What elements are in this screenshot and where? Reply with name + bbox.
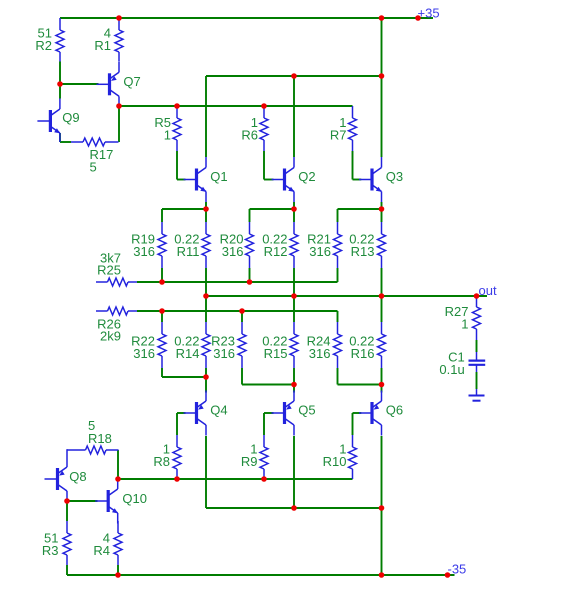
svg-text:316: 316	[133, 244, 155, 259]
wire Q1 base horizontal	[177, 179, 186, 181]
wire R12 top lead	[293, 209, 295, 222]
svg-text:+35: +35	[418, 5, 440, 20]
wire Q4 base horizontal	[177, 412, 186, 414]
wire R16 bottom lead	[381, 368, 383, 385]
wire out row	[206, 295, 487, 297]
wire Q8 collector node to Q10 base	[67, 500, 98, 502]
resistor R13 (0.22)	[349, 222, 385, 268]
resistor R17 (5)	[71, 138, 119, 175]
wire Q2 emitter to junction	[293, 202, 295, 209]
wire second rail y76	[206, 75, 382, 77]
junction bias row / R6	[261, 103, 267, 109]
wire R19 top corner down	[161, 209, 163, 222]
svg-text:R14: R14	[176, 346, 200, 361]
wire Q2 emitter node to R20 top	[250, 208, 295, 210]
junction top rail / +35 riser	[379, 15, 385, 21]
junction -35 net stub	[445, 572, 451, 578]
svg-text:Q8: Q8	[69, 469, 86, 484]
transistor Q3 (NPN)	[359, 157, 403, 202]
resistor R24 (316)	[307, 322, 342, 368]
resistor R22 (316)	[131, 322, 166, 368]
svg-text:Q3: Q3	[386, 169, 403, 184]
resistor R26 (2k9)	[96, 307, 137, 344]
wire R13 top lead	[381, 209, 383, 222]
svg-text:R2: R2	[35, 38, 52, 53]
svg-text:R7: R7	[330, 127, 347, 142]
wire R19 bottom to R25 row	[161, 268, 163, 282]
wire Q3 emitter node to R21 top	[338, 208, 382, 210]
svg-text:R18: R18	[88, 431, 112, 446]
wire R15 bottom lead	[293, 368, 295, 385]
wire R20 top corner down	[249, 209, 251, 222]
svg-text:R10: R10	[323, 454, 347, 469]
wire +35 top rail	[60, 17, 433, 19]
transistor Q9 (NPN)	[37, 99, 79, 143]
resistor R10 (1)	[323, 435, 357, 479]
junction Q2 emitter node	[291, 206, 297, 212]
resistor R12 (0.22)	[262, 222, 298, 268]
wire Q1 emitter to junction	[205, 202, 207, 209]
junction collector row / Q5	[291, 505, 297, 511]
resistor R8 (1)	[153, 435, 181, 479]
wire R11 bottom to out row	[205, 268, 207, 296]
wire R13 bottom to out row	[381, 268, 383, 296]
svg-text:R8: R8	[153, 454, 170, 469]
svg-text:316: 316	[309, 346, 331, 361]
svg-text:Q10: Q10	[122, 491, 147, 506]
wire R21 top corner down	[337, 209, 339, 222]
svg-text:1: 1	[461, 317, 468, 332]
wire R16 top lead	[381, 296, 383, 322]
wire Q3 base horizontal	[353, 179, 362, 181]
wire Q9 emitter down to R17 row	[59, 133, 61, 142]
svg-text:R16: R16	[351, 346, 375, 361]
transistor Q6 (PNP)	[359, 391, 403, 436]
junction R25 row / R20	[247, 279, 253, 285]
wire Q1 collector riser	[205, 76, 207, 157]
wire R15 top lead	[293, 296, 295, 322]
junction Q4 emitter node	[203, 374, 209, 380]
wire C1 bottom to ground	[476, 372, 478, 389]
svg-text:R4: R4	[93, 543, 110, 558]
transistor Q10 (NPN)	[95, 479, 147, 524]
resistor R9 (1)	[241, 435, 268, 479]
wire R23 bottom lead	[241, 368, 243, 385]
svg-text:316: 316	[213, 346, 235, 361]
junction node C R18/Q10 collector/bias row	[115, 476, 121, 482]
wire R11 top lead	[205, 209, 207, 222]
wire Q6 base corner down to R10	[352, 413, 354, 435]
wire Q6 base horizontal	[353, 412, 362, 414]
junction rail y76 / +35 riser	[379, 73, 385, 79]
resistor R21 (316)	[307, 222, 341, 268]
wire R27 bottom to C1	[476, 340, 478, 352]
junction rail y76 / Q2 collector	[291, 73, 297, 79]
resistor R1 (4)	[94, 18, 123, 62]
junction Q6 emitter node	[379, 382, 385, 388]
wire R21 bottom to R25 row	[337, 268, 339, 282]
svg-text:Q2: Q2	[298, 169, 315, 184]
svg-text:316: 316	[133, 346, 155, 361]
resistor R20 (316)	[220, 222, 254, 268]
resistor R14 (0.22)	[174, 322, 210, 368]
capacitor C1 (0.1u)	[439, 350, 485, 377]
wire R12 bottom to out row	[293, 268, 295, 296]
svg-text:R6: R6	[241, 127, 258, 142]
wire Q5 emitter lead	[293, 385, 295, 393]
transistor Q4 (PNP)	[184, 391, 228, 436]
wire Q2 collector riser	[293, 76, 295, 157]
wire R18 right down to node C	[117, 450, 119, 478]
junction out row / R11 R14	[203, 293, 209, 299]
junction out row / R12 R15	[291, 293, 297, 299]
junction -35 rail / Q6 riser	[379, 572, 385, 578]
ground	[469, 389, 485, 401]
wire R22 top lead	[161, 311, 163, 322]
svg-text:Q4: Q4	[210, 403, 227, 418]
resistor R19 (316)	[131, 222, 166, 268]
wire Q4 base corner down to R8	[176, 413, 178, 435]
wire Q5 collector down	[293, 436, 295, 508]
wire R26 row	[137, 310, 338, 312]
resistor R27 (1)	[445, 296, 481, 340]
junction Q1 emitter node	[203, 206, 209, 212]
transistor Q8 (PNP)	[45, 457, 87, 502]
wire R20 bottom to R25 row	[249, 268, 251, 282]
transistor Q1 (NPN)	[184, 157, 228, 202]
junction Q3 emitter node	[379, 206, 385, 212]
wire R7 bottom to Q3 base corner	[352, 151, 354, 180]
svg-text:-35: -35	[448, 562, 467, 577]
wire Q6 emitter lead	[381, 385, 383, 393]
wire R14 top lead	[205, 296, 207, 322]
junction node B Q7 collector / R17 / bias row	[116, 103, 122, 109]
junction collector row / Q6 riser	[379, 505, 385, 511]
junction +35 net stub	[415, 15, 421, 21]
svg-text:2k9: 2k9	[100, 329, 121, 344]
svg-text:R11: R11	[177, 244, 200, 259]
svg-text:R9: R9	[241, 454, 258, 469]
wire R3 bottom lead	[66, 565, 68, 575]
svg-text:Q7: Q7	[123, 74, 140, 89]
junction R26 row / R23	[239, 308, 245, 314]
wire R17 right up to node B	[118, 107, 120, 143]
wire R23 bottom to Q5 emitter node	[242, 384, 294, 386]
junction top rail / R1	[116, 15, 122, 21]
resistor R6 (1)	[241, 106, 268, 151]
svg-text:316: 316	[222, 244, 244, 259]
junction lower bias row / R8	[174, 476, 180, 482]
wire lower bias row y479	[118, 478, 353, 480]
resistor R7 (1)	[330, 106, 357, 151]
wire Q1 emitter node to R19 top	[162, 208, 206, 210]
svg-text:R1: R1	[94, 38, 111, 53]
svg-text:1: 1	[164, 127, 171, 142]
junction bias row / R5	[174, 103, 180, 109]
junction R25 row / R19	[159, 279, 165, 285]
wire Q5 base corner down to R9	[263, 413, 265, 435]
wire R3 top lead	[66, 501, 68, 521]
wire R4 bottom lead	[117, 565, 119, 575]
svg-text:Q9: Q9	[62, 110, 79, 125]
wire R22 bottom lead	[161, 368, 163, 377]
wire R25 row	[137, 281, 338, 283]
wire -35 bottom rail	[67, 574, 455, 576]
junction Q5 emitter node	[291, 382, 297, 388]
junction -35 rail / R4	[115, 572, 121, 578]
wire Q6 collector down to -35 rail	[381, 436, 383, 575]
svg-text:R12: R12	[264, 244, 288, 259]
svg-text:out: out	[479, 283, 497, 298]
svg-text:316: 316	[309, 244, 331, 259]
wire R23 top lead	[241, 311, 243, 322]
wire R14 bottom lead	[205, 368, 207, 377]
wire R5 bottom to Q1 base corner	[176, 151, 178, 180]
transistor Q5 (PNP)	[272, 391, 316, 436]
wire R24 bottom to Q6 emitter node	[338, 384, 382, 386]
wire R6 bottom to Q2 base corner	[263, 151, 265, 180]
svg-text:Q5: Q5	[298, 403, 315, 418]
resistor R3 (51)	[42, 521, 71, 565]
svg-text:Q6: Q6	[386, 403, 403, 418]
svg-text:R25: R25	[97, 263, 121, 278]
wire Q2 base horizontal	[264, 179, 274, 181]
svg-text:R13: R13	[351, 244, 375, 259]
resistor R5 (1)	[154, 106, 181, 151]
wire node A to Q7 base	[60, 83, 99, 85]
wire Q9 emitter to R17 left	[60, 141, 71, 143]
resistor R25 (3k7)	[96, 250, 137, 286]
wire node B bias row to R5/R6/R7 tops	[119, 105, 353, 107]
node A junction R2/Q9/Q7	[57, 81, 63, 87]
wire R22 bottom to Q4 emitter node	[162, 376, 206, 378]
wire Q9 collector to node A	[59, 84, 61, 99]
wire Q5 base horizontal	[264, 412, 274, 414]
wire lower collector row y508	[206, 507, 382, 509]
wire Q4 emitter lead	[205, 377, 207, 393]
wire Q4 collector down	[205, 436, 207, 508]
junction out row / R27 (out node)	[474, 293, 480, 299]
svg-text:R15: R15	[264, 346, 288, 361]
wire R24 bottom lead	[337, 368, 339, 385]
wire Q8 emitter to R18 corner	[66, 449, 68, 456]
resistor R15 (0.22)	[262, 322, 298, 368]
transistor Q7 (PNP)	[97, 62, 141, 107]
resistor R16 (0.22)	[349, 322, 385, 368]
svg-text:5: 5	[90, 160, 97, 175]
transistor Q2 (NPN)	[272, 157, 316, 202]
svg-text:Q1: Q1	[210, 169, 227, 184]
svg-text:0.1u: 0.1u	[439, 362, 464, 377]
resistor R2 (51)	[35, 18, 64, 62]
resistor R11 (0.22)	[174, 222, 210, 268]
junction R26 row / R22	[159, 308, 165, 314]
junction out row / R13 R16	[379, 293, 385, 299]
junction node D Q8 collector/Q10 base/R3	[64, 498, 70, 504]
wire Q3 emitter to junction	[381, 202, 383, 209]
resistor R4 (4)	[93, 521, 122, 565]
resistor R18 (5)	[67, 418, 119, 454]
wire R2 bottom to node A	[59, 62, 61, 85]
wire +35 rail down to Q3	[381, 18, 383, 157]
junction lower bias row / R9	[261, 476, 267, 482]
resistor R23 (316)	[211, 322, 246, 368]
wire R24 top corner down	[337, 311, 339, 322]
svg-text:R3: R3	[42, 543, 59, 558]
